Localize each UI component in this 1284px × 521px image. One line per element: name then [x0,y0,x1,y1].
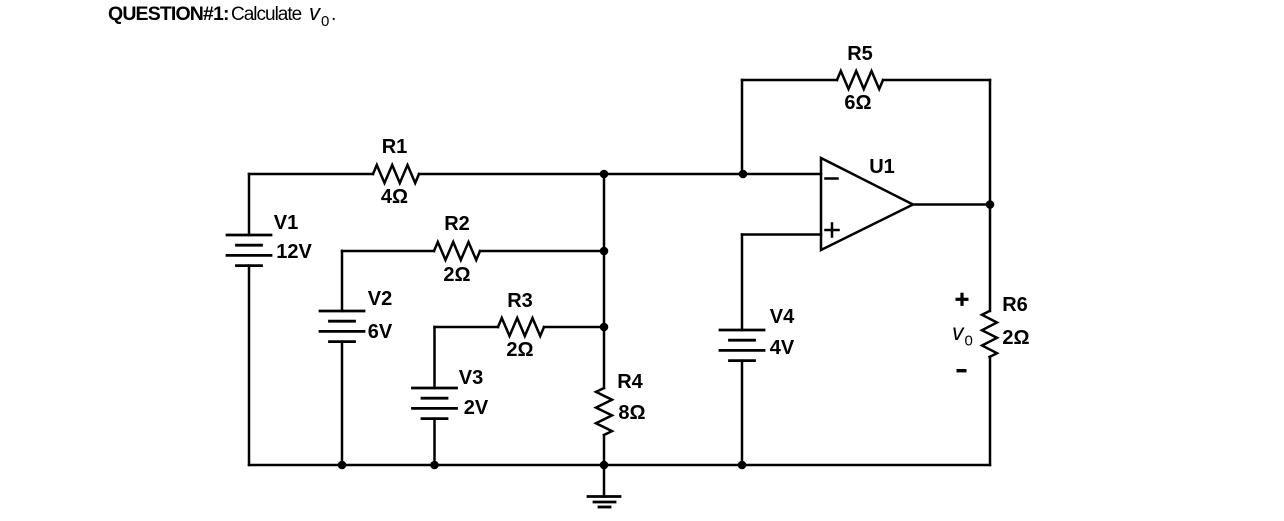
ground bars [588,497,620,508]
node junction dot ground [600,461,609,470]
resistor R4 zigzag [596,388,612,435]
svg-text:2V: 2V [464,397,489,419]
wire top row from V1 to op-amp minus input [249,173,373,176]
resistor R2 zigzag [434,242,480,260]
svg-text:R3: R3 [507,290,533,312]
resistor R5 zigzag [837,71,883,89]
voltage source V3 plates [413,388,457,419]
node junction dot minus input / R5 leg [739,170,748,179]
svg-text:8Ω: 8Ω [618,402,645,424]
label minus sign v0 [957,369,967,372]
wire left rail bottom (V1 bottom lead) [248,266,251,465]
wire op-amp output [913,203,990,206]
voltage source V2 plates [320,311,364,342]
svg-text:12V: 12V [276,241,312,263]
resistor R3 zigzag [498,318,544,336]
wire bottom rail [249,464,990,467]
wire R1 right to op-amp [419,173,821,176]
wire plus input row [742,233,821,236]
svg-text:6V: 6V [368,321,393,343]
wire R5 top row [742,79,837,82]
ground stub [603,465,606,497]
op-amp minus sign [826,177,838,180]
svg-text:R5: R5 [847,43,873,65]
wire R3 left lead [435,326,499,329]
svg-text:6Ω: 6Ω [844,92,871,114]
node junction dot V2 bottom [338,461,347,470]
node junction dot R2 / middle rail [600,247,609,256]
node junction dot V3 bottom [430,461,439,470]
wire right rail R6 bottom lead [989,357,992,465]
wire R2 right lead to middle rail [480,250,604,253]
node junction dot R3 / middle rail [600,323,609,332]
wire V2 top lead [341,251,344,311]
svg-text:v: v [952,319,965,345]
voltage source V4 plates [720,330,764,361]
svg-text:2Ω: 2Ω [443,264,470,286]
wire left rail top (V1 top lead) [248,174,251,235]
wire V4 bottom lead [741,361,744,465]
wire V4 top lead [741,235,744,331]
svg-text:0: 0 [965,333,973,350]
svg-text:R6: R6 [1002,294,1028,316]
resistor R6 zigzag [982,311,997,357]
wire R2 left lead [342,250,434,253]
svg-text:4Ω: 4Ω [381,186,408,208]
wire R3 right lead to middle rail [544,326,604,329]
node junction dot V4 bottom [738,461,747,470]
svg-text:V1: V1 [274,212,298,234]
svg-text:R1: R1 [382,136,408,158]
wire V3 bottom lead [433,419,436,465]
wire R5 right leg down to output node [989,80,992,205]
svg-text:.: . [331,3,336,25]
wire R5 right to right rail corner [883,79,990,82]
svg-text:2Ω: 2Ω [1002,327,1029,349]
svg-text:0: 0 [321,13,329,30]
wire R5 left leg down to minus node [741,80,744,174]
op-amp plus sign [826,229,839,232]
wire R4 bottom lead [603,435,606,465]
svg-text:V4: V4 [770,306,795,328]
label plus sign v0 [956,293,969,306]
resistor R1 zigzag [373,165,419,183]
wire V3 top lead [433,327,436,388]
svg-text:R2: R2 [444,213,470,235]
svg-text:V3: V3 [459,367,483,389]
svg-text:QUESTION#1:: QUESTION#1: [108,3,229,25]
svg-text:V2: V2 [368,288,392,310]
svg-text:2Ω: 2Ω [506,339,533,361]
svg-text:Calculate: Calculate [231,4,302,25]
node junction dot output [986,200,995,209]
node junction dot R1/middle rail [600,170,609,179]
voltage source V1 plates [227,235,271,266]
op-amp U1 triangle [821,158,913,250]
wire V2 bottom lead [341,342,344,465]
wire right rail R6 top lead [989,205,992,312]
svg-text:4V: 4V [770,337,795,359]
svg-text:U1: U1 [869,156,895,178]
svg-text:R4: R4 [617,371,643,393]
wire middle rail [603,174,606,388]
